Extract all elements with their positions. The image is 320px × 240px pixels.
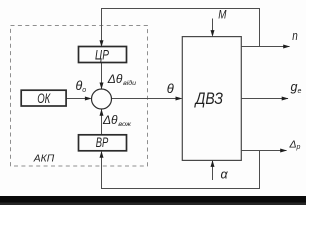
svg-text:ВР: ВР <box>96 134 109 150</box>
svg-text:M: M <box>218 10 227 22</box>
svg-text:АКП: АКП <box>33 154 55 165</box>
svg-text:α: α <box>221 168 229 182</box>
svg-text:n: n <box>292 28 298 43</box>
svg-text:ДВЗ: ДВЗ <box>194 89 224 108</box>
svg-text:ОК: ОК <box>37 90 51 106</box>
svg-text:θ: θ <box>167 81 174 96</box>
svg-text:ЦР: ЦР <box>95 47 109 63</box>
